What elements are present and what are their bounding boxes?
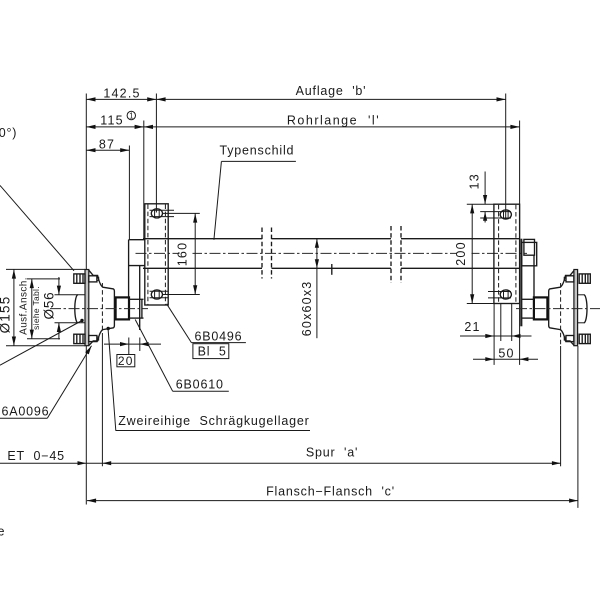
svg-text:Rohrlange 'l': Rohrlange 'l' (287, 113, 380, 127)
svg-text:Zweireihige Schrägkugellager: Zweireihige Schrägkugellager (118, 414, 309, 428)
svg-text:142.5: 142.5 (103, 87, 140, 101)
svg-text:160: 160 (176, 242, 190, 266)
svg-text:Spur 'a': Spur 'a' (306, 445, 358, 459)
svg-text:ET 0−45: ET 0−45 (7, 449, 64, 463)
svg-text:Bl 5: Bl 5 (198, 345, 227, 359)
svg-text:6B0610: 6B0610 (176, 377, 224, 391)
svg-text:Flansch−Flansch 'c': Flansch−Flansch 'c' (266, 485, 395, 499)
svg-text:13: 13 (468, 173, 482, 189)
svg-text:21: 21 (464, 320, 480, 334)
svg-text:6B0496: 6B0496 (195, 329, 243, 343)
svg-text:Auflage 'b': Auflage 'b' (296, 84, 367, 98)
svg-text:Ø155: Ø155 (0, 296, 13, 334)
svg-text:siehe Tabl.: siehe Tabl. (31, 286, 41, 330)
svg-text:e: e (0, 525, 5, 539)
svg-text:115: 115 (100, 114, 124, 128)
svg-text:Ausf.Ansch.: Ausf.Ansch. (19, 277, 30, 335)
svg-text:(60°): (60°) (0, 126, 17, 140)
svg-text:Ø56: Ø56 (42, 292, 57, 320)
svg-text:60x60x3: 60x60x3 (300, 281, 314, 337)
svg-text:1: 1 (129, 112, 134, 121)
svg-text:6A0096: 6A0096 (2, 404, 50, 418)
svg-text:50: 50 (498, 346, 514, 360)
svg-text:20: 20 (118, 354, 134, 368)
svg-text:87: 87 (99, 138, 115, 152)
svg-text:200: 200 (454, 241, 468, 265)
svg-text:Typenschild: Typenschild (220, 143, 295, 157)
